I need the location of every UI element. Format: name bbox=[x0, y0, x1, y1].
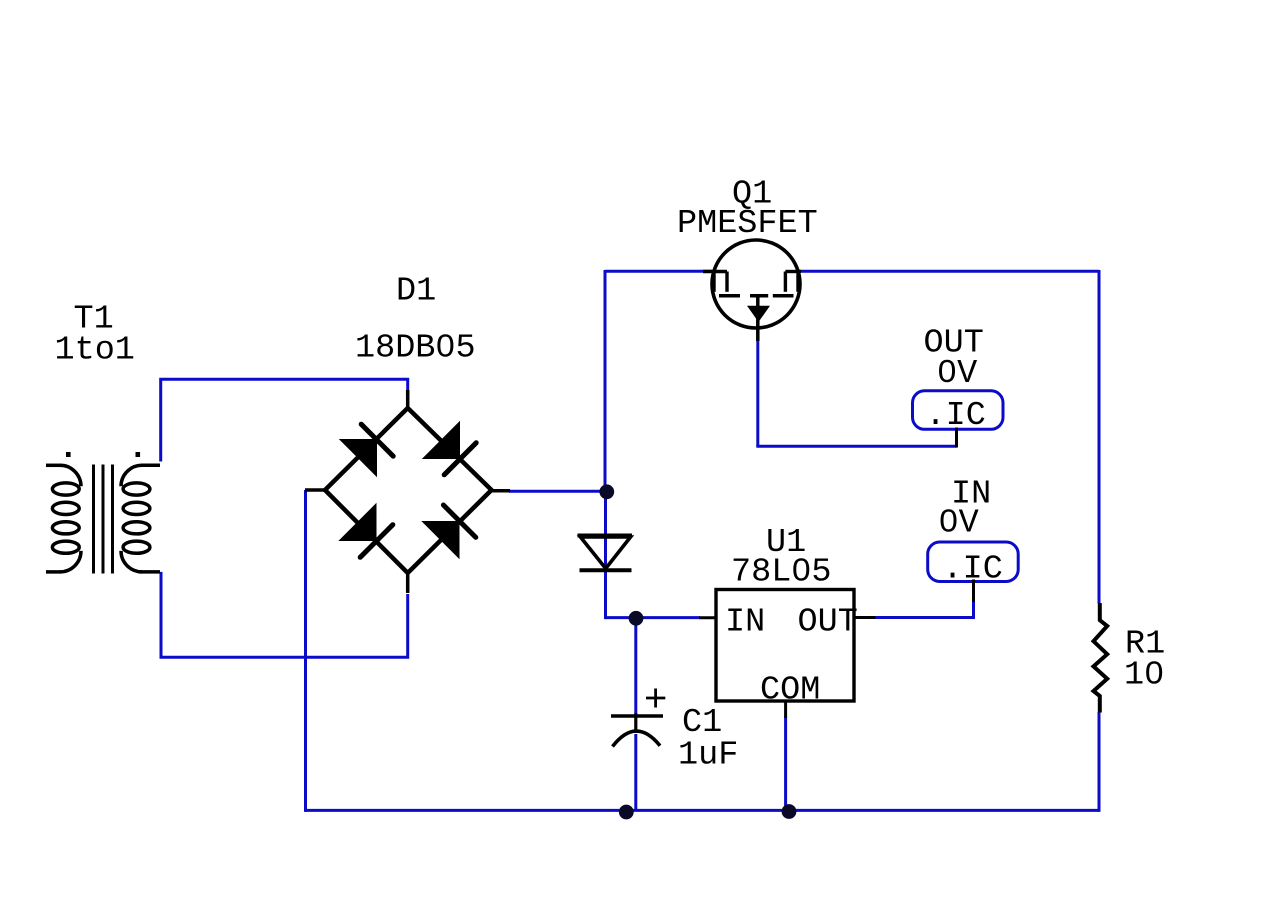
wire Q1 source lead down bbox=[756, 339, 759, 446]
regulator U1 COM pin stub bbox=[784, 701, 787, 718]
capacitor C1 top plate bbox=[611, 714, 663, 718]
wire top rail right of Q1 bbox=[800, 270, 1100, 273]
transformer T1 secondary loop 3 bbox=[123, 522, 150, 534]
bridge D1 right pin stub bbox=[489, 489, 510, 493]
transistor Q1 left lead bbox=[703, 270, 727, 273]
transformer T1 primary lead top bbox=[46, 464, 61, 468]
transformer T1 secondary phase dot bbox=[136, 452, 141, 457]
wire bridge right corner to node A bbox=[509, 490, 607, 493]
transistor Q1 channel segment left bbox=[719, 294, 740, 298]
resistor R1 zigzag bbox=[1094, 603, 1108, 713]
svg-text:78L05: 78L05 bbox=[731, 554, 832, 592]
svg-text:1to1: 1to1 bbox=[55, 332, 135, 370]
wire right rail down to R1 bbox=[1098, 270, 1101, 604]
transformer T1 secondary loop 2 bbox=[123, 502, 150, 514]
node B junction dot bbox=[629, 611, 644, 626]
bridge D1 upper-left diode cathode bar bbox=[361, 424, 393, 456]
wire R1 bottom to bottom rail bbox=[1098, 712, 1101, 812]
wire node B down to C1 top bbox=[634, 618, 637, 713]
transformer T1 secondary bottom hook bbox=[121, 551, 142, 572]
transistor Q1 circle bbox=[712, 240, 800, 328]
svg-text:0V: 0V bbox=[939, 505, 979, 543]
capacitor C1 plus sign bbox=[646, 689, 665, 708]
bridge D1 diamond outline bbox=[325, 408, 492, 573]
transistor Q1 left bracket outer bar bbox=[712, 272, 715, 292]
bridge D1 top pin stub bbox=[406, 390, 410, 410]
svg-text:.IC: .IC bbox=[943, 551, 1003, 589]
svg-text:COM: COM bbox=[760, 672, 820, 710]
diode D2 cathode bar bbox=[580, 568, 632, 572]
transformer T1 primary top hook bbox=[60, 465, 81, 486]
transformer T1 secondary loop 4 bbox=[123, 541, 150, 553]
transistor Q1 channel segment center bbox=[750, 294, 768, 298]
junction dot COM on bottom rail bbox=[782, 804, 797, 819]
.IC OUT marker pin stub bbox=[955, 428, 958, 448]
transformer T1 secondary lead bottom bbox=[140, 570, 160, 574]
bridge D1 bottom pin stub bbox=[406, 571, 410, 593]
transistor Q1 right lead bbox=[785, 270, 801, 273]
bridge D1 left pin stub bbox=[305, 488, 327, 492]
regulator U1 OUT pin stub bbox=[854, 616, 876, 619]
transistor Q1 right bracket inner bar bbox=[784, 272, 787, 292]
transformer T1 primary loop 1 bbox=[52, 483, 79, 495]
svg-text:D1: D1 bbox=[396, 273, 436, 311]
transformer T1 primary loop 3 bbox=[52, 522, 79, 534]
capacitor C1 curved bottom plate bbox=[613, 731, 661, 746]
junction dot C1 on bottom rail bbox=[619, 805, 634, 820]
svg-text:IN: IN bbox=[725, 604, 765, 642]
transformer T1 secondary top hook bbox=[121, 465, 142, 486]
diode D2 triangle bbox=[581, 537, 631, 569]
wire top rail left of Q1 bbox=[605, 270, 712, 273]
svg-text:0V: 0V bbox=[937, 355, 977, 393]
wire transformer secondary bottom to bridge bottom corner bbox=[161, 572, 408, 657]
wire Q1 source to .IC marker of net OUT bbox=[756, 445, 956, 448]
wire C1 bottom to bottom rail bbox=[634, 734, 637, 810]
transformer T1 core line 2 bbox=[102, 465, 105, 574]
transformer T1 secondary lead top bbox=[141, 464, 160, 468]
wire left vertical from top rail to node A bbox=[604, 270, 607, 492]
bridge D1 upper-right diode triangle bbox=[422, 421, 460, 459]
transistor Q1 arrow bbox=[747, 306, 770, 322]
wire diode D2 bottom to node B bbox=[606, 616, 637, 619]
svg-text:PMESFET: PMESFET bbox=[677, 205, 818, 243]
transformer T1 primary lead bottom bbox=[46, 570, 61, 574]
bridge D1 lower-right diode cathode bar bbox=[443, 505, 475, 537]
wire U1 COM pin down to bottom rail bbox=[784, 716, 787, 810]
.IC marker box for net IN bbox=[928, 542, 1019, 582]
regulator U1 IN pin stub bbox=[699, 616, 716, 619]
transistor Q1 channel segment right bbox=[773, 294, 794, 298]
wire bottom rail bbox=[306, 809, 1100, 812]
.IC marker box for net OUT bbox=[913, 391, 1004, 430]
svg-text:OUT: OUT bbox=[798, 604, 858, 642]
svg-text:1uF: 1uF bbox=[678, 737, 738, 775]
transistor Q1 right bracket outer bar bbox=[796, 272, 799, 292]
wire bridge left corner down to bottom rail bbox=[304, 490, 307, 812]
bridge D1 lower-left diode cathode bar bbox=[360, 525, 393, 558]
wire transformer secondary top to bridge top corner bbox=[161, 379, 408, 461]
transformer T1 primary loop 2 bbox=[52, 502, 79, 514]
regulator U1 box bbox=[716, 590, 854, 702]
transistor Q1 source vertical lead bbox=[756, 296, 760, 341]
diode D2 anode line bbox=[578, 534, 633, 538]
transformer T1 core line 3 bbox=[111, 465, 114, 574]
wire node B to U1 IN pin bbox=[636, 616, 700, 619]
wire U1 OUT pin to .IC marker of net IN bbox=[875, 601, 975, 619]
transformer T1 primary loop 4 bbox=[52, 541, 79, 553]
bridge D1 upper-right diode cathode bar bbox=[444, 443, 476, 475]
.IC IN marker pin stub bbox=[972, 580, 975, 603]
bridge D1 lower-right diode triangle bbox=[421, 521, 459, 559]
transformer T1 core line 1 bbox=[92, 465, 95, 574]
svg-text:.IC: .IC bbox=[926, 397, 986, 435]
transformer T1 primary bottom hook bbox=[60, 551, 81, 572]
node A junction dot bbox=[599, 484, 614, 499]
capacitor C1 lead between plates bbox=[634, 713, 637, 733]
svg-text:10: 10 bbox=[1124, 657, 1164, 695]
wire node A down through diode D2 bbox=[604, 492, 607, 620]
bridge D1 lower-left diode triangle bbox=[338, 503, 376, 541]
svg-text:18DB05: 18DB05 bbox=[355, 330, 476, 368]
transformer T1 primary phase dot bbox=[66, 452, 71, 457]
bridge D1 upper-left diode triangle bbox=[339, 439, 377, 477]
transformer T1 secondary loop 1 bbox=[123, 483, 150, 495]
transistor Q1 left bracket inner bar bbox=[725, 272, 728, 292]
